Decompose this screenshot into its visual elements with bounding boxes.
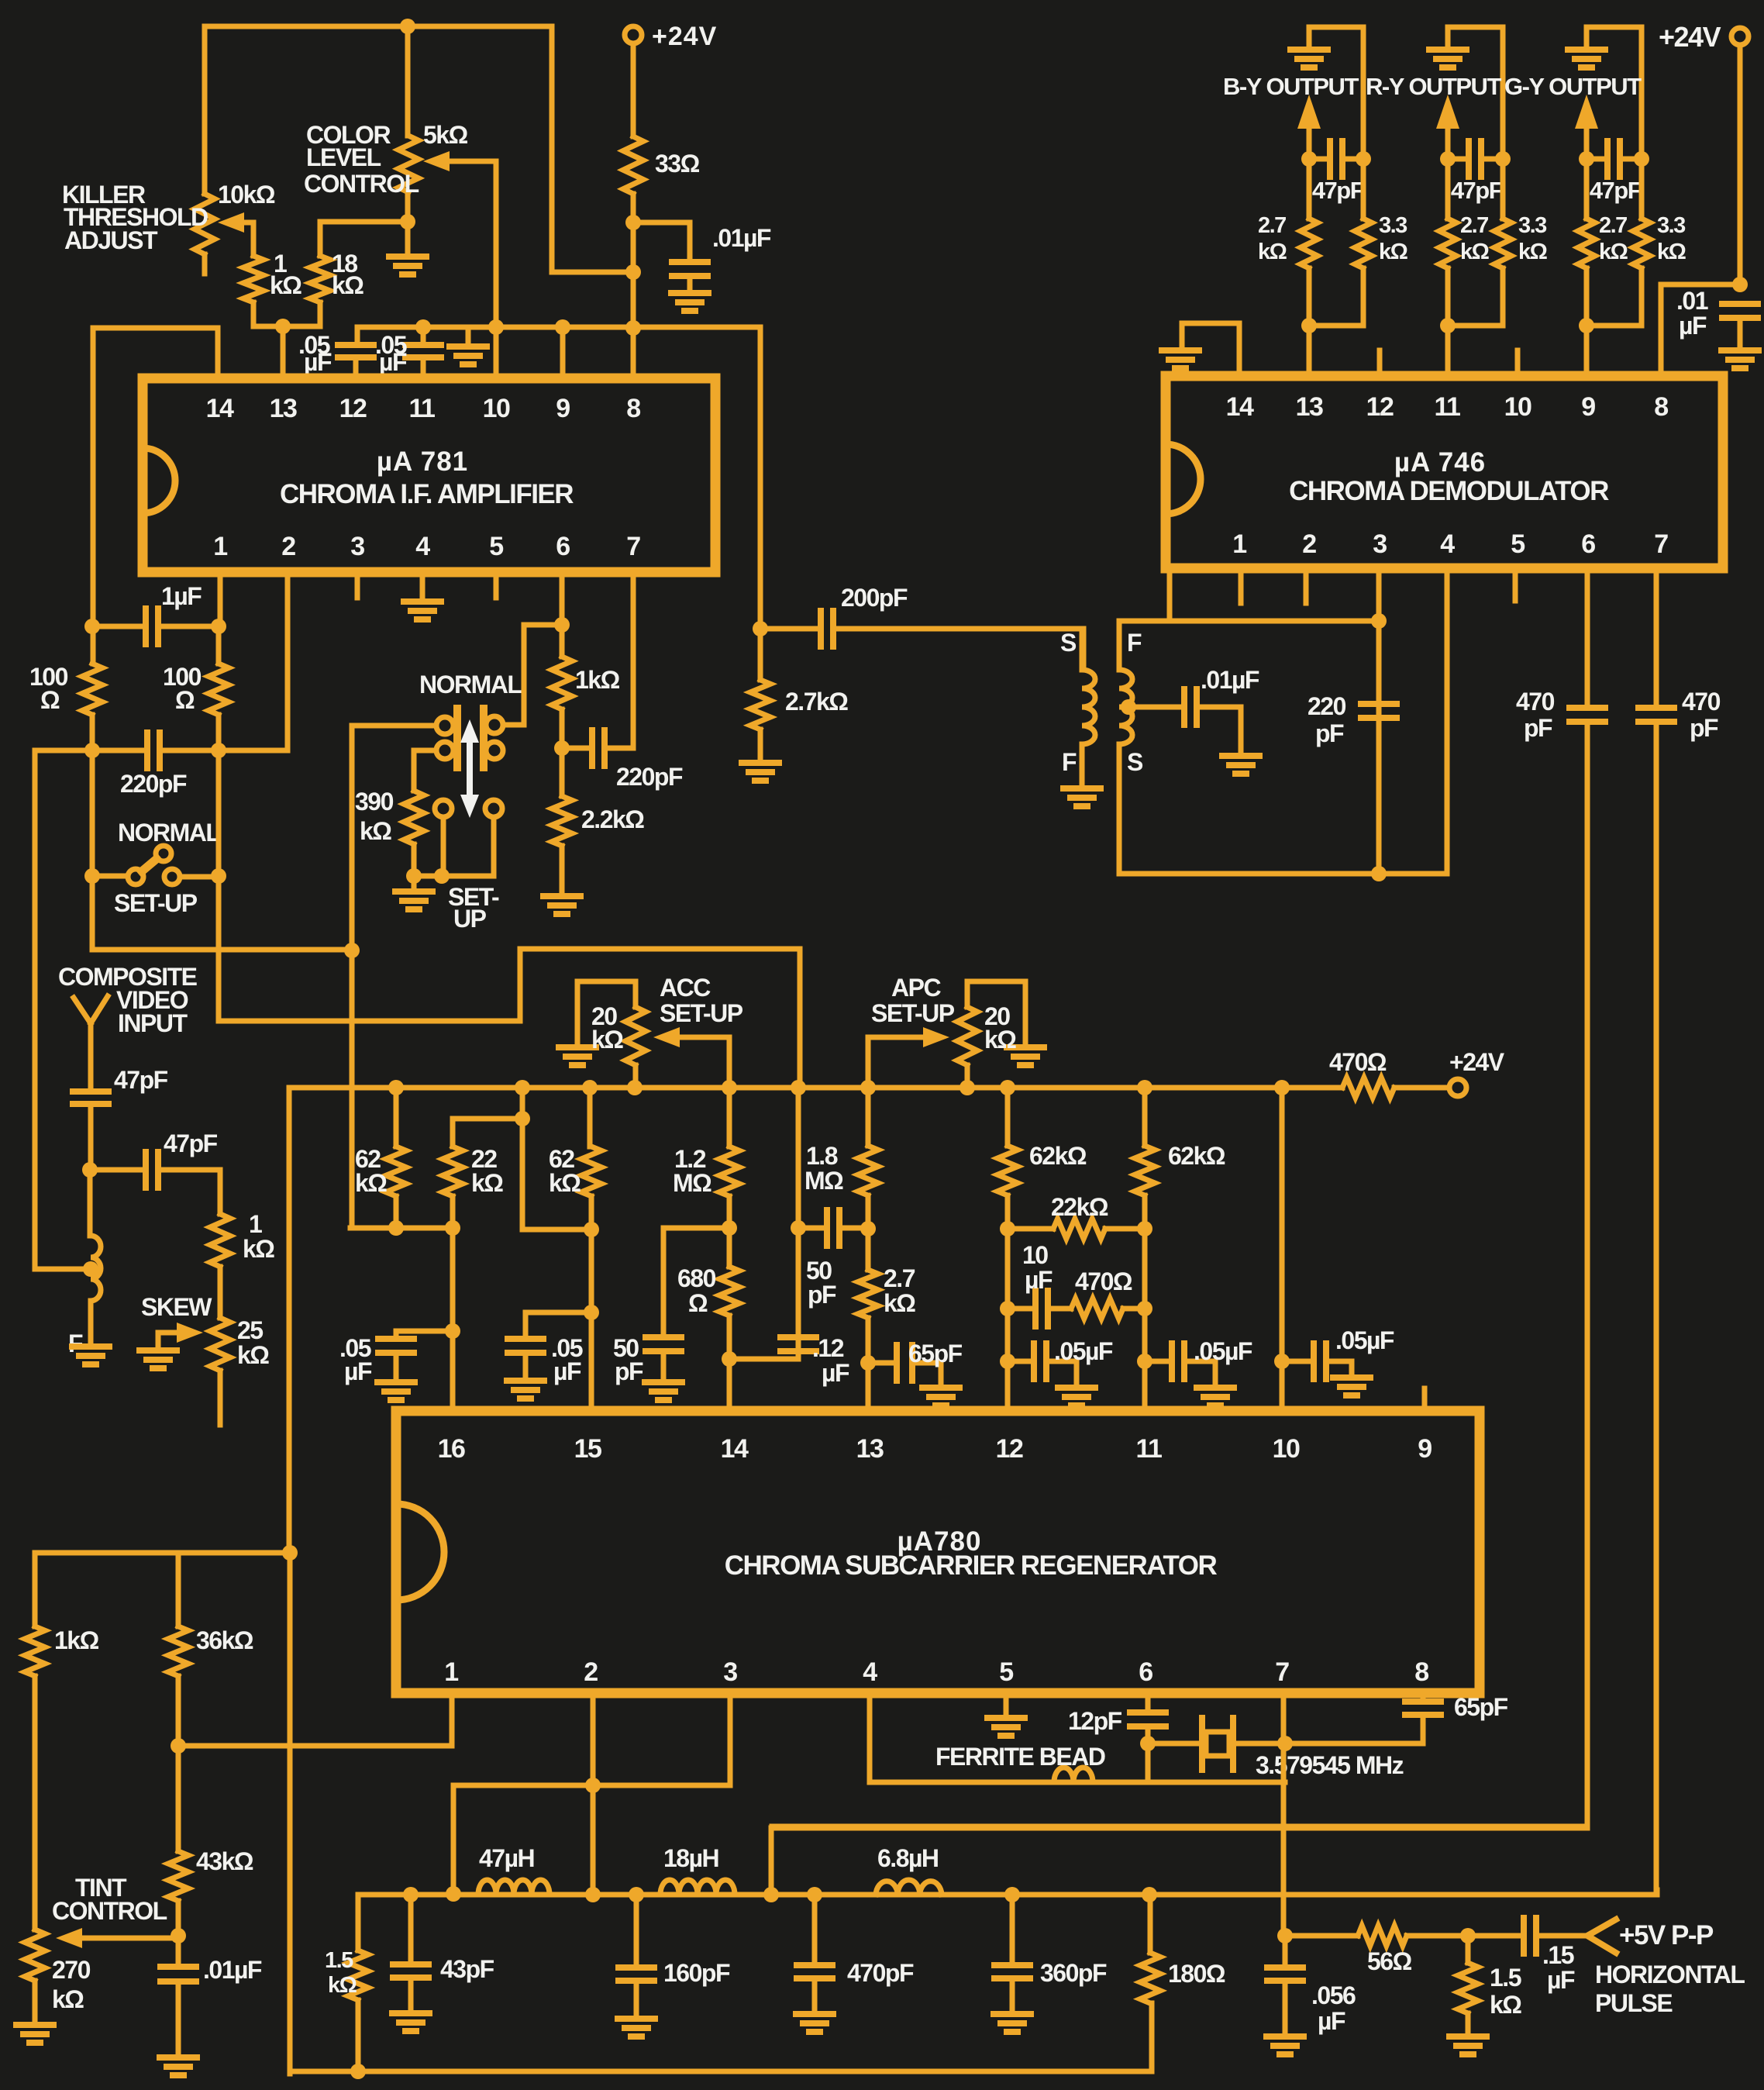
resistor 18kΩ	[310, 256, 330, 302]
svg-text:2: 2	[281, 532, 295, 561]
power terminal +24V bus	[1449, 1079, 1466, 1096]
svg-text:47pF: 47pF	[114, 1066, 168, 1094]
resistor 390kΩ	[404, 791, 424, 844]
svg-text:470Ω: 470Ω	[1075, 1267, 1132, 1295]
svg-text:2.7kΩ: 2.7kΩ	[785, 688, 848, 716]
svg-text:kΩ: kΩ	[237, 1341, 269, 1369]
resistor 1kΩ (skew)	[210, 1214, 230, 1267]
svg-text:.01: .01	[1676, 287, 1708, 315]
svg-text:62kΩ: 62kΩ	[1168, 1142, 1225, 1170]
wire G-Y OUTPUT top hook	[1587, 27, 1642, 159]
svg-text:12pF: 12pF	[1068, 1707, 1122, 1735]
svg-text:Ω: Ω	[40, 686, 60, 714]
node 33ohm/cap branch	[625, 215, 641, 230]
svg-text:10: 10	[1504, 392, 1531, 422]
wire color level wiper arrow	[434, 161, 496, 326]
svg-text:1: 1	[444, 1657, 458, 1687]
wire left loop vertical	[91, 328, 96, 664]
resistor 680Ω	[719, 1267, 739, 1316]
capacitor .05µF (pin10)	[1282, 1359, 1312, 1364]
svg-text:pF: pF	[1315, 719, 1344, 747]
svg-text:kΩ: kΩ	[1258, 240, 1287, 264]
svg-text:3.3: 3.3	[1657, 213, 1686, 238]
wire bottom bus	[290, 2003, 1152, 2071]
resistor 2.7kΩ (G-Y OUTPUT)	[1584, 159, 1590, 219]
svg-text:5kΩ: 5kΩ	[423, 121, 468, 149]
node pin13 cap row	[860, 1355, 876, 1371]
node cap2 junction	[415, 319, 431, 335]
capacitor 47pF (series)	[90, 1167, 144, 1173]
svg-text:1kΩ: 1kΩ	[54, 1626, 99, 1654]
node 470pF3	[807, 1887, 822, 1902]
wire pin1 stub	[1239, 568, 1244, 603]
resistor 470Ω (+24V bus)	[1342, 1078, 1394, 1098]
svg-text:UP: UP	[453, 905, 487, 933]
ground (.01uF T1)	[1222, 753, 1259, 759]
crystal Y1 3.579545 MHz	[1148, 1741, 1198, 1747]
wire +24V right down to pin8	[1661, 45, 1740, 376]
node bus junction	[722, 1080, 737, 1095]
node 1uF left	[84, 619, 100, 634]
svg-text:µF: µF	[1547, 1966, 1575, 1994]
ground (R-Y OUTPUT hook)	[1429, 47, 1466, 53]
node bus junction	[860, 1080, 876, 1095]
ground (.05uF pin15)	[507, 1378, 544, 1384]
ground (APC pot)	[1007, 1044, 1044, 1050]
wire 1030 column	[796, 1088, 801, 1359]
svg-text:6: 6	[1139, 1657, 1152, 1687]
wire pin4 ground stub	[420, 572, 425, 602]
svg-text:B-Y OUTPUT: B-Y OUTPUT	[1223, 73, 1359, 100]
wire 374 long drop	[288, 1553, 293, 2074]
svg-text:7: 7	[626, 532, 640, 561]
wire pin5 stub	[494, 572, 499, 598]
resistor 3.3kΩ (R-Y OUTPUT)	[1500, 159, 1506, 219]
wire pin3 column	[1376, 574, 1382, 874]
ground (B-Y OUTPUT hook)	[1290, 47, 1328, 53]
svg-text:NORMAL: NORMAL	[118, 819, 220, 847]
node 22k2 right	[1137, 1221, 1152, 1236]
wire T1 left top link	[1054, 626, 1084, 632]
svg-text:G-Y OUTPUT: G-Y OUTPUT	[1504, 73, 1642, 100]
node B-Y OUTPUT bottom	[1301, 318, 1317, 333]
node 22k bottom	[445, 1220, 460, 1236]
svg-text:8: 8	[1414, 1657, 1428, 1687]
wire R-Y OUTPUT top hook	[1448, 27, 1503, 159]
node 390k bottom	[406, 868, 422, 884]
node coil row 585	[446, 1886, 461, 1902]
resistor 36kΩ	[176, 1553, 181, 1626]
ground (.05uF pin10)	[1333, 1374, 1370, 1381]
wire pin7 long column	[1651, 722, 1656, 1895]
svg-text:33Ω: 33Ω	[655, 150, 700, 178]
svg-text:1: 1	[1232, 529, 1246, 559]
svg-text:APC: APC	[891, 974, 941, 1002]
svg-text:.05µF: .05µF	[1194, 1337, 1252, 1365]
ground (.01uF top)	[671, 290, 708, 296]
svg-text:47pF: 47pF	[164, 1129, 218, 1157]
resistor 56Ω	[1285, 1933, 1358, 1939]
svg-text:1kΩ: 1kΩ	[575, 666, 620, 694]
svg-text:.15: .15	[1542, 1941, 1574, 1969]
wire pin10 stub up	[1515, 350, 1521, 376]
svg-text:kΩ: kΩ	[471, 1169, 503, 1197]
node 1uF right	[211, 619, 226, 634]
resistor 100Ω right	[216, 626, 222, 664]
power terminal +24V left	[625, 26, 642, 43]
svg-text:3: 3	[1373, 529, 1387, 559]
wire B-Y OUTPUT top hook	[1309, 27, 1363, 159]
ground (1.5k pulse)	[1449, 2033, 1487, 2040]
wire IC corner stub	[1167, 571, 1173, 621]
resistor 180Ω	[1148, 1895, 1153, 1953]
node pin11 cap row	[1137, 1354, 1152, 1369]
IC U1 uA781 chroma IF amplifier box	[143, 378, 715, 572]
ground (input coil)	[72, 1343, 109, 1350]
svg-text:160pF: 160pF	[663, 1959, 730, 1987]
wire pin3 link row	[453, 1693, 730, 1895]
node pin3 bottom row	[1371, 866, 1387, 881]
svg-text:+24V: +24V	[1659, 21, 1721, 53]
svg-text:pF: pF	[1524, 714, 1552, 742]
svg-text:4: 4	[863, 1657, 877, 1687]
wire mid link y1316 up-right	[520, 949, 800, 1088]
svg-text:CONTROL: CONTROL	[52, 1897, 167, 1925]
capacitor 50pF (horizontal)	[798, 1226, 825, 1231]
node pin15 cap row	[584, 1305, 599, 1320]
capacitor 470pF (pin7)	[1654, 568, 1659, 706]
ground (.05uF pin16)	[377, 1379, 415, 1385]
node bus junction	[1000, 1080, 1015, 1095]
resistor 25kΩ skew pot	[210, 1318, 230, 1371]
resistor 3.3kΩ (G-Y OUTPUT)	[1639, 159, 1645, 219]
wire DPDT bottom-left to 390k	[414, 750, 436, 791]
capacitor 220pF (pin3)	[1361, 701, 1397, 707]
capacitor .01µF (T1 tap)	[1121, 699, 1136, 715]
svg-text:12: 12	[1366, 392, 1394, 422]
wire B-Y OUTPUT bottom	[1309, 268, 1363, 377]
svg-text:kΩ: kΩ	[1460, 240, 1490, 264]
wire 1.5k corner	[356, 1895, 361, 1950]
inductor 6.8µH	[876, 1880, 942, 1895]
capacitor 220pF (input)	[144, 733, 150, 768]
svg-text:220: 220	[1307, 692, 1346, 720]
resistor 22kΩ #1	[453, 1088, 522, 1147]
wire pin2 column	[591, 1693, 596, 1895]
svg-text:10kΩ: 10kΩ	[218, 181, 275, 209]
svg-text:µF: µF	[344, 1357, 372, 1385]
wire pin2 stub	[1304, 568, 1309, 603]
svg-text:360pF: 360pF	[1040, 1959, 1107, 1987]
node 22k top	[515, 1111, 530, 1126]
svg-text:25: 25	[237, 1316, 263, 1344]
resistor 1kΩ (pin6)	[552, 657, 572, 709]
svg-text:4: 4	[1440, 529, 1455, 559]
node bus junction	[960, 1080, 975, 1095]
svg-text:47pF: 47pF	[1312, 177, 1364, 204]
svg-text:SET-UP: SET-UP	[114, 889, 198, 917]
ground (.01uF tint)	[160, 2054, 197, 2061]
svg-text:22kΩ: 22kΩ	[1051, 1193, 1108, 1221]
capacitor 43pF	[408, 1895, 414, 1963]
ground (160pF)	[618, 2016, 655, 2022]
wire pin10 column	[1280, 1088, 1285, 1411]
ground (.05uF pin12)	[1058, 1385, 1095, 1391]
resistor 2.7kΩ (200pF)	[758, 629, 763, 680]
svg-text:Ω: Ω	[175, 686, 195, 714]
svg-text:15: 15	[574, 1434, 601, 1464]
svg-text:36kΩ: 36kΩ	[196, 1626, 253, 1654]
capacitor .05µF (pin11)	[421, 327, 426, 343]
svg-text:µF: µF	[304, 348, 332, 376]
svg-text:MΩ: MΩ	[804, 1167, 843, 1195]
capacitor 470pF (pin6)	[1585, 568, 1590, 706]
resistor 1kΩ (killer)	[243, 256, 264, 302]
wire pin5 stub	[1513, 568, 1518, 601]
ground (ACC pot)	[559, 1044, 596, 1050]
svg-text:.01µF: .01µF	[203, 1956, 262, 1984]
svg-text:.01µF: .01µF	[712, 224, 771, 252]
ground (50pF)	[645, 1379, 682, 1385]
svg-text:43kΩ: 43kΩ	[196, 1847, 253, 1875]
wire ferrite bead row	[870, 1693, 1285, 1782]
node y1225 left-column junction	[344, 943, 360, 958]
ground (65pF pin13)	[922, 1385, 960, 1391]
inductor 18µH	[660, 1880, 735, 1895]
wire pin3 stub	[355, 572, 360, 598]
capacitor .05µF (pin16)	[396, 1331, 453, 1337]
svg-text:1: 1	[213, 532, 227, 561]
svg-text:3: 3	[723, 1657, 737, 1687]
svg-text:11: 11	[1136, 1434, 1163, 1464]
svg-text:µF: µF	[553, 1357, 581, 1385]
resistor 3.3kΩ (B-Y OUTPUT)	[1361, 159, 1366, 219]
svg-text:220pF: 220pF	[616, 763, 683, 791]
svg-text:µF: µF	[379, 348, 407, 376]
svg-text:3.3: 3.3	[1518, 213, 1547, 238]
svg-text:F: F	[1127, 629, 1142, 657]
wire G-Y OUTPUT bottom	[1587, 268, 1642, 377]
wire ACC pot top hook	[577, 981, 636, 1047]
svg-text:1.8: 1.8	[806, 1142, 838, 1170]
node 43k bottom	[171, 1928, 186, 1943]
node pin10 junction	[488, 319, 504, 335]
wire top pin bus y=422	[357, 327, 760, 629]
svg-text:µF: µF	[1679, 312, 1707, 340]
svg-text:INPUT: INPUT	[118, 1009, 188, 1037]
capacitor 65pF (pin8)	[1421, 1693, 1426, 1700]
wire T1 right top to pin3 row	[1119, 621, 1379, 670]
svg-text:14: 14	[721, 1434, 749, 1464]
capacitor .05µF (pin11)	[1145, 1359, 1170, 1364]
node pin3 top row	[1371, 613, 1387, 629]
svg-text:CHROMA SUBCARRIER REGENERATOR: CHROMA SUBCARRIER REGENERATOR	[725, 1550, 1218, 1581]
wire switch left column down	[92, 750, 350, 950]
wire 33ohm down to pin8	[631, 194, 636, 378]
arrow R-Y OUTPUT output	[1445, 128, 1451, 159]
node bus junction	[515, 1080, 530, 1095]
node R-Y OUTPUT bottom	[1440, 318, 1456, 333]
svg-text:47pF: 47pF	[1451, 177, 1503, 204]
node 43pF	[403, 1887, 419, 1902]
wire pin5 ground stub	[1004, 1693, 1009, 1718]
wire killer wiper arrow	[228, 222, 253, 256]
svg-text:S: S	[1127, 748, 1143, 776]
wire branch to .01uF	[633, 222, 690, 258]
svg-text:pF: pF	[615, 1357, 643, 1385]
node bus junction	[388, 1080, 404, 1095]
svg-text:470Ω: 470Ω	[1329, 1048, 1387, 1076]
wire 220pF row	[35, 748, 146, 754]
resistor 1.2MΩ	[727, 1088, 732, 1147]
capacitor 470pF (row)	[812, 1895, 818, 1964]
svg-text:kΩ: kΩ	[360, 817, 391, 845]
wire set-up contacts bus	[414, 817, 494, 876]
node pin8 bus crossing	[625, 320, 641, 336]
svg-text:1.5: 1.5	[325, 1948, 353, 1973]
ground (pin14 uA746)	[1162, 347, 1199, 354]
svg-text:2: 2	[1302, 529, 1316, 559]
node 33ohm/left feed	[625, 264, 641, 280]
svg-text:65pF: 65pF	[908, 1340, 963, 1367]
wire coil tap link	[35, 1267, 91, 1272]
svg-text:16: 16	[438, 1434, 465, 1464]
node bus junction	[627, 1080, 643, 1095]
ground (2.2k)	[543, 893, 581, 899]
ground (T1 left)	[1063, 785, 1101, 792]
svg-text:+24V: +24V	[652, 22, 717, 51]
svg-text:1: 1	[249, 1210, 262, 1238]
node bus junction	[582, 1080, 598, 1095]
node bottom bus 1.5k	[350, 2064, 366, 2079]
node B-Y OUTPUT 47pF right	[1356, 151, 1371, 167]
node pin9 junction	[555, 319, 570, 335]
resistor 270kΩ tint pot	[25, 1930, 45, 1981]
svg-text:CHROMA I.F. AMPLIFIER: CHROMA I.F. AMPLIFIER	[280, 479, 574, 509]
resistor 2.7kΩ (B-Y OUTPUT)	[1307, 159, 1312, 219]
inductor 47µH	[478, 1880, 550, 1895]
wire pin7 column	[1281, 1693, 1287, 1936]
ground (G-Y OUTPUT hook)	[1568, 47, 1605, 53]
arrow APC wiper	[868, 1037, 927, 1088]
resistor 62kΩ #2	[587, 1088, 593, 1147]
node bus junction	[791, 1080, 806, 1095]
switch S2 DPDT normal/set-up	[436, 717, 453, 734]
svg-text:6.8µH: 6.8µH	[877, 1844, 939, 1872]
svg-text:2: 2	[584, 1657, 598, 1687]
svg-text:8: 8	[1654, 392, 1668, 422]
node 1k/2.2k	[554, 740, 570, 756]
wire pin12 stub up	[1377, 350, 1383, 376]
svg-text:13: 13	[856, 1434, 884, 1464]
svg-text:.12: .12	[812, 1334, 844, 1362]
svg-text:2.2kΩ: 2.2kΩ	[581, 805, 644, 833]
svg-text:470: 470	[1516, 688, 1555, 716]
svg-text:pF: pF	[808, 1281, 836, 1309]
svg-text:.056: .056	[1311, 1981, 1356, 2009]
resistor 5kΩ color level pot	[398, 136, 419, 192]
wire top feed loop	[205, 26, 633, 272]
resistor 2.2kΩ	[552, 796, 572, 846]
node 100ohm-right row	[211, 743, 226, 758]
node top feed junction	[400, 19, 415, 34]
svg-text:6: 6	[556, 532, 570, 561]
node coil tap	[83, 1261, 98, 1277]
svg-text:4: 4	[415, 532, 430, 561]
wire DPDT top-right to pin6 node	[503, 625, 562, 725]
node pin13 junction	[275, 319, 291, 334]
svg-text:2.7: 2.7	[1258, 213, 1286, 238]
svg-text:7: 7	[1275, 1657, 1289, 1687]
wire tint top row	[35, 1550, 290, 1556]
node 50pF2 junction	[791, 1220, 806, 1236]
node bus junction	[1137, 1080, 1152, 1095]
capacitor .056µF	[1283, 1936, 1288, 1966]
wire .12uF link	[729, 1357, 798, 1362]
antenna composite video input	[74, 996, 108, 1088]
node 360pF	[1004, 1887, 1020, 1902]
wire +24V bus y1403	[289, 1085, 1342, 1091]
node crystal left	[1140, 1736, 1156, 1751]
svg-text:Ω: Ω	[688, 1289, 708, 1317]
svg-text:+5V P-P: +5V P-P	[1619, 1920, 1714, 1950]
svg-text:µF: µF	[1025, 1266, 1053, 1294]
node G-Y OUTPUT 47pF left	[1579, 151, 1594, 167]
switch S2 set-up contacts	[435, 800, 452, 817]
node B-Y OUTPUT 47pF left	[1301, 151, 1317, 167]
svg-text:µF: µF	[1318, 2007, 1345, 2035]
ground (.05uF pin11)	[1197, 1385, 1234, 1391]
svg-text:3.3: 3.3	[1379, 213, 1407, 238]
wire R-Y OUTPUT bottom	[1448, 268, 1503, 377]
resistor 1.8MΩ	[866, 1088, 871, 1146]
svg-text:47pF: 47pF	[1590, 177, 1642, 204]
svg-text:kΩ: kΩ	[1518, 240, 1548, 264]
wire 22k riser to 62k2 bottom	[522, 1119, 591, 1230]
ground (470pF row)	[796, 2011, 833, 2017]
svg-text:LEVEL: LEVEL	[306, 143, 381, 171]
node setup bus	[434, 868, 450, 884]
svg-text:kΩ: kΩ	[355, 1169, 387, 1197]
resistor 1.5kΩ (43pF)	[348, 1950, 368, 2000]
wire cap stub pin12	[355, 327, 360, 343]
ground (pin5 uA780)	[987, 1715, 1025, 1721]
svg-text:180Ω: 180Ω	[1168, 1960, 1225, 1988]
capacitor .05µF (pin12)	[1008, 1359, 1032, 1364]
svg-text:13: 13	[1296, 392, 1323, 422]
capacitor .01µF (+24V)	[1722, 301, 1758, 307]
capacitor .05µF (pin12)	[338, 342, 374, 348]
node switch right	[211, 868, 226, 884]
wire left drop to coil tap	[33, 750, 38, 1269]
transformer T1 right winding	[1119, 670, 1132, 744]
svg-text:10: 10	[1022, 1241, 1048, 1269]
wire 1k/18k bottom bus to pin13	[253, 326, 320, 378]
svg-text:FERRITE BEAD: FERRITE BEAD	[935, 1743, 1105, 1771]
svg-text:kΩ: kΩ	[591, 1026, 623, 1054]
svg-text:18µH: 18µH	[663, 1844, 718, 1872]
svg-text:kΩ: kΩ	[328, 1973, 357, 1998]
resistor 470Ω (10uF)	[1053, 1306, 1071, 1312]
svg-text:+24V: +24V	[1449, 1048, 1505, 1076]
capacitor 200pF	[760, 626, 819, 632]
node G-Y OUTPUT 47pF right	[1634, 151, 1649, 167]
resistor 62kΩ #3	[1005, 1088, 1011, 1146]
node R-Y OUTPUT 47pF right	[1495, 151, 1511, 167]
node 680 bottom	[722, 1351, 737, 1367]
svg-text:CONTROL: CONTROL	[304, 170, 419, 198]
svg-text:470: 470	[1682, 688, 1721, 716]
